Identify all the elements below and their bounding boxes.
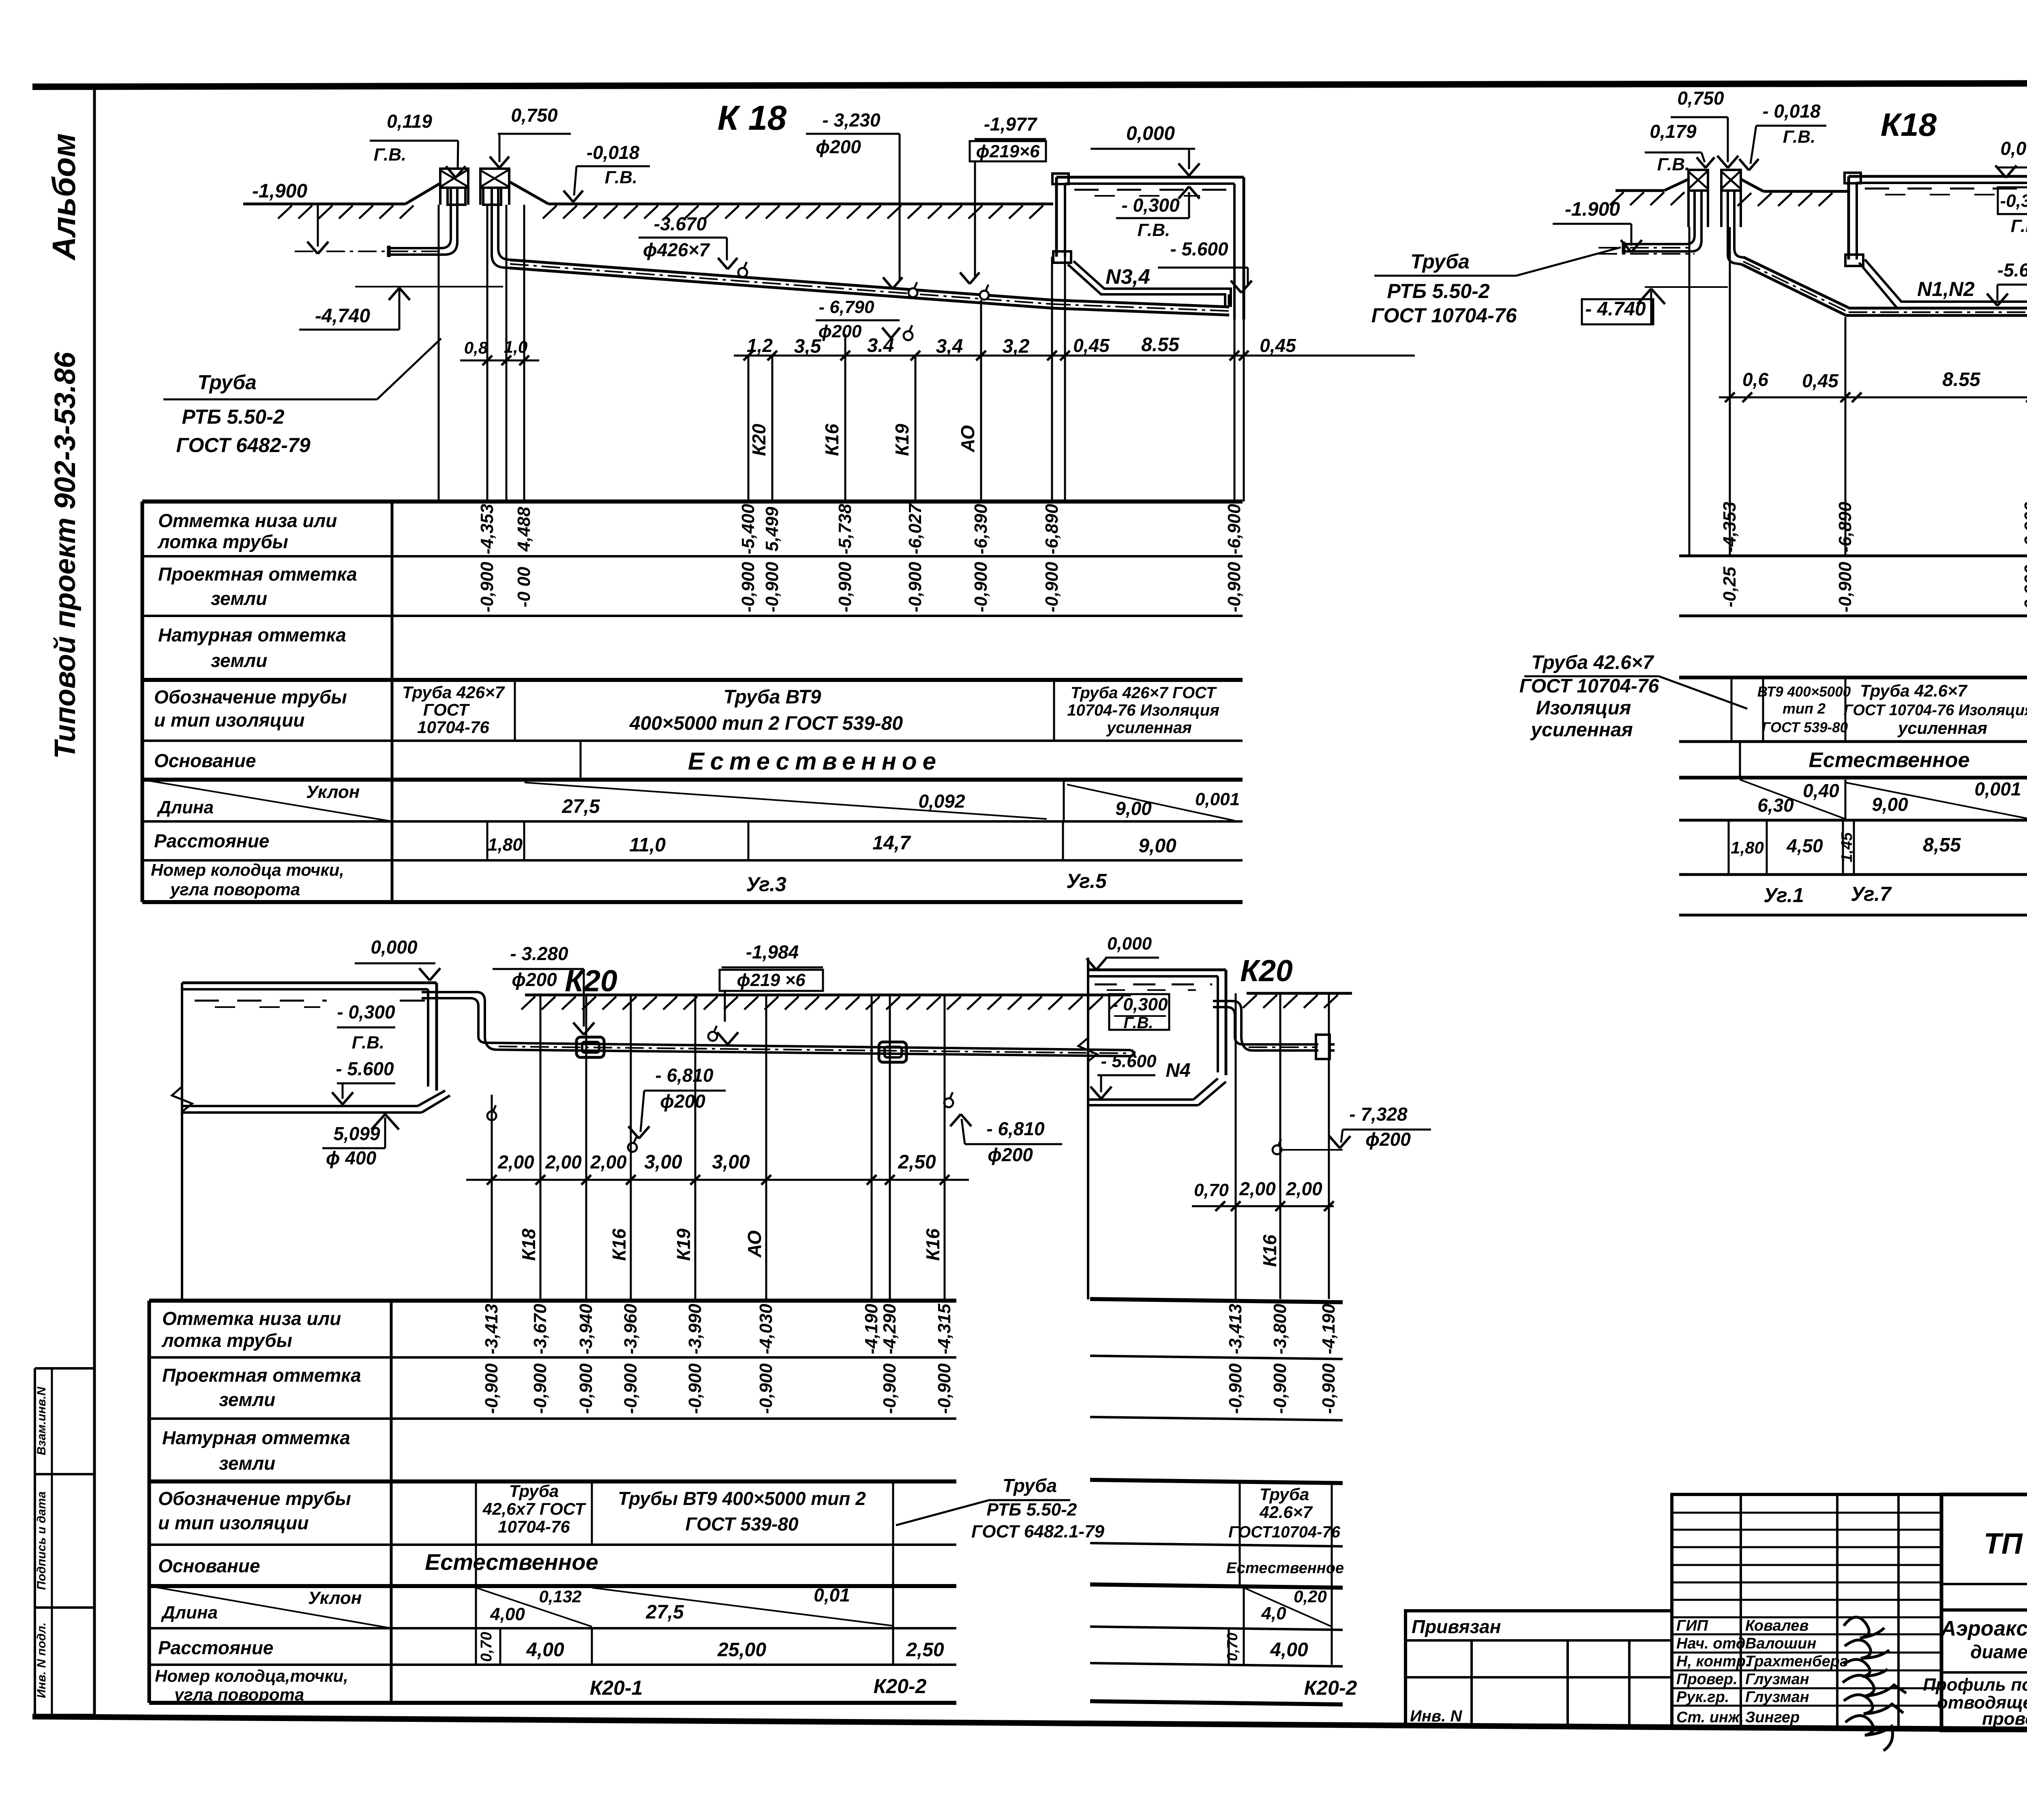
svg-text:диаметром 18 м: диаметром 18 м	[1970, 1641, 2027, 1662]
svg-text:4,00: 4,00	[1270, 1639, 1308, 1661]
svg-text:0,132: 0,132	[539, 1587, 581, 1606]
elevation label -4.740 boxed (profile 2)	[1582, 287, 1728, 324]
svg-text:0,20: 0,20	[1294, 1587, 1327, 1606]
aeroaccelerator tank walls (profile 1)	[1052, 174, 1244, 319]
svg-text:0,000: 0,000	[1107, 934, 1152, 954]
svg-text:Валошин: Валошин	[1745, 1635, 1816, 1652]
label N1,N2	[1917, 278, 1975, 300]
margin text Albom	[46, 133, 82, 261]
svg-text:усиленная: усиленная	[1897, 718, 1987, 737]
svg-text:усиленная: усиленная	[1106, 719, 1192, 737]
svg-text:0,119: 0,119	[387, 111, 432, 132]
svg-text:ГИП: ГИП	[1676, 1617, 1708, 1634]
svg-text:-4,353: -4,353	[1720, 502, 1740, 553]
svg-text:ГОСТ 6482-79: ГОСТ 6482-79	[176, 434, 310, 457]
riser pipe in shaft 2 with elbow to right	[492, 188, 510, 268]
svg-text:- 0,300: - 0,300	[1121, 195, 1180, 216]
svg-text:Основание: Основание	[158, 1555, 260, 1576]
table 1 well numbers row	[746, 870, 1107, 896]
svg-text:Проектная отметка: Проектная отметка	[158, 564, 357, 585]
svg-text:10704-76: 10704-76	[417, 718, 489, 737]
groundwater dash-dot level (profile 2)	[1598, 253, 1695, 255]
crossing label -6,810 phi200 mid (profile 3)	[628, 1065, 726, 1152]
svg-text:1,45: 1,45	[1838, 832, 1856, 862]
profile 1 title K 18	[718, 99, 787, 137]
table 3 well numbers K20-1 K20-2	[590, 1675, 927, 1699]
svg-text:-0,900: -0,900	[1319, 1363, 1339, 1414]
elevation label -0,300 G.V. boxed (profile 4)	[1109, 994, 1169, 1032]
svg-text:ВТ9 400×5000: ВТ9 400×5000	[1757, 684, 1851, 700]
svg-text:-5,738: -5,738	[835, 504, 855, 554]
table 4 elevation values row 2	[1226, 1363, 1339, 1414]
svg-text:Труба: Труба	[1260, 1485, 1309, 1504]
elevation label -1,900 (profile 1)	[252, 180, 328, 254]
svg-text:- 7,328: - 7,328	[1349, 1104, 1408, 1125]
table 2 slope diagonals	[1740, 778, 2027, 820]
svg-text:- 5.600: - 5.600	[336, 1058, 394, 1079]
svg-text:Основание: Основание	[154, 750, 256, 771]
elevation label 0,119 G.V. (profile 1)	[370, 111, 465, 178]
svg-text:- 5.600: - 5.600	[1170, 238, 1228, 259]
svg-text:10704-76: 10704-76	[498, 1517, 570, 1536]
section grid verticals (profile 2)	[1689, 227, 2027, 556]
table 2 grid rows	[1679, 556, 2027, 915]
svg-text:-0,900: -0,900	[971, 562, 991, 612]
svg-text:0,179: 0,179	[1650, 121, 1697, 142]
svg-text:ϕ426×7: ϕ426×7	[643, 239, 710, 260]
svg-text:-4,030: -4,030	[756, 1303, 776, 1354]
svg-text:-6,900: -6,900	[1224, 504, 1244, 554]
svg-text:Н, контр.: Н, контр.	[1676, 1653, 1750, 1670]
svg-text:Ковалев: Ковалев	[1745, 1617, 1808, 1634]
svg-text:К20-2: К20-2	[1304, 1676, 1357, 1699]
svg-text:0,8: 0,8	[464, 338, 488, 357]
table 2 foundation row	[1740, 742, 1970, 778]
elevation label 0,000 (profile 4)	[1086, 934, 1159, 970]
svg-text:Труба ВТ9: Труба ВТ9	[724, 686, 821, 708]
ground surface left of manholes (profile 1)	[243, 183, 440, 219]
pipe label Truba RTB 5.50-2 GOST 6482-79 (profile 1)	[163, 339, 441, 457]
ground surface left (profile 2)	[1610, 179, 1688, 205]
outlet pipe from tank (profile 4)	[1213, 1001, 1318, 1050]
svg-text:земли: земли	[211, 588, 267, 609]
svg-text:-0,300: -0,300	[2000, 191, 2027, 211]
title block main stamp	[1941, 1494, 2027, 1730]
svg-text:-4,353: -4,353	[477, 504, 497, 555]
ground surface right of manholes (profile 1)	[509, 182, 1053, 219]
svg-text:Труба: Труба	[197, 371, 257, 394]
stamp document number TP 902-3-53.86	[1984, 1528, 2027, 1560]
svg-text:-1,977: -1,977	[984, 114, 1038, 135]
svg-text:0,70: 0,70	[1224, 1633, 1241, 1661]
svg-text:Г.В.: Г.В.	[1138, 220, 1170, 240]
svg-text:Г.В.: Г.В.	[2011, 216, 2027, 236]
svg-text:ϕ200: ϕ200	[816, 136, 861, 157]
svg-text:ϕ200: ϕ200	[660, 1091, 705, 1112]
svg-text:400×5000 тип 2 ГОСТ 53: 400×5000 тип 2 ГОСТ 539-80	[629, 713, 903, 734]
svg-text:К18: К18	[518, 1228, 539, 1261]
table 3 grid	[149, 1301, 956, 1703]
water level dashes in tank (profile 1)	[1074, 190, 1228, 196]
svg-text:-0,018: -0,018	[587, 142, 640, 163]
svg-text:-0,900: -0,900	[880, 1363, 900, 1414]
tank walls (profile 3)	[172, 983, 437, 1301]
svg-text:усиленная: усиленная	[1530, 719, 1633, 741]
svg-text:Типовой проект 902-3-53.86: Типовой проект 902-3-53.86	[49, 352, 81, 759]
table 1 elevation values row 1 (pipe invert)	[477, 503, 1244, 554]
table 1 foundation row Estestvennoe	[581, 741, 942, 780]
table 4 foundation row	[1226, 1560, 1344, 1577]
svg-text:3,4: 3,4	[936, 336, 963, 357]
svg-text:- 3.280: - 3.280	[510, 943, 568, 964]
svg-text:2,00: 2,00	[1239, 1178, 1276, 1199]
svg-text:-0,900: -0,900	[685, 1363, 705, 1414]
svg-text:-3,670: -3,670	[530, 1303, 550, 1354]
svg-text:проводов: проводов	[1982, 1709, 2027, 1729]
svg-text:Трубы ВТ9 400×5000 тип 2: Трубы ВТ9 400×5000 тип 2	[618, 1488, 866, 1509]
svg-text:Профиль подающего и: Профиль подающего и	[1923, 1675, 2027, 1695]
svg-text:2,00: 2,00	[1286, 1178, 1322, 1199]
svg-text:4,0: 4,0	[1261, 1603, 1286, 1623]
svg-text:-5.600: -5.600	[1997, 259, 2027, 281]
table 3 elevation values row 2	[482, 1363, 954, 1414]
svg-text:Проектная отметка: Проектная отметка	[162, 1365, 361, 1386]
svg-text:-0,900: -0,900	[756, 1363, 776, 1414]
manhole shaft 2 (profile 2)	[1721, 170, 1741, 227]
svg-text:К16: К16	[821, 424, 842, 456]
svg-text:ГОСТ 539-80: ГОСТ 539-80	[1762, 720, 1848, 735]
section grid verticals (profile 4)	[1236, 993, 1329, 1299]
crossing label 5,099 phi400 (profile 3)	[322, 1105, 496, 1168]
svg-text:Г.В.: Г.В.	[1657, 154, 1690, 174]
table 2 elevation values row 1	[1720, 502, 2027, 552]
water level dashes in tank (profile 2)	[1865, 189, 2027, 195]
svg-text:3,00: 3,00	[644, 1151, 682, 1173]
svg-text:Изоляция: Изоляция	[1536, 697, 1631, 719]
svg-text:ГОСТ 539-80: ГОСТ 539-80	[686, 1513, 799, 1535]
svg-text:-3,800: -3,800	[1270, 1303, 1290, 1354]
svg-text:11,0: 11,0	[629, 834, 666, 856]
title block signature table	[1672, 1494, 1941, 1728]
svg-text:Натурная отметка: Натурная отметка	[158, 624, 346, 645]
water level dashes (profile 3 tank)	[195, 1001, 425, 1007]
table 4 grid rows	[1090, 1299, 1343, 1704]
svg-text:Отметка низа или: Отметка низа или	[158, 510, 337, 531]
svg-text:Уклон: Уклон	[306, 782, 360, 802]
svg-text:ϕ219×6: ϕ219×6	[976, 141, 1040, 161]
svg-text:Уклон: Уклон	[308, 1588, 362, 1608]
svg-text:Г.В.: Г.В.	[605, 167, 637, 187]
svg-text:- 4.740: - 4.740	[1585, 298, 1646, 320]
annotation Truba 426x7 GOST 10704-76 Izolyatsiya usilennaya with leader	[1519, 652, 1747, 741]
annotation Truba RTB 5.50-2 GOST 6482.1-79 with leader	[896, 1475, 1105, 1541]
side column box	[35, 1368, 94, 1715]
svg-text:-4,740: -4,740	[315, 305, 370, 327]
label N4	[1166, 1060, 1190, 1081]
svg-text:Труба 42.6×7: Труба 42.6×7	[1860, 681, 1967, 700]
svg-text:Рук.гр.: Рук.гр.	[1676, 1689, 1729, 1706]
manhole shaft 1 with cap (profile 1)	[440, 169, 468, 205]
svg-text:лотка трубы: лотка трубы	[161, 1330, 292, 1351]
svg-text:- 6,810: - 6,810	[655, 1065, 714, 1086]
svg-text:Взам.инв.N: Взам.инв.N	[35, 1386, 48, 1455]
svg-text:-3,990: -3,990	[685, 1303, 705, 1354]
svg-text:8.55: 8.55	[1141, 334, 1180, 356]
svg-text:К16: К16	[922, 1228, 943, 1261]
svg-text:РТБ 5.50-2: РТБ 5.50-2	[182, 405, 284, 428]
svg-text:К16: К16	[1259, 1235, 1280, 1267]
manhole shaft 2 with cap (profile 1)	[480, 169, 509, 205]
svg-text:и тип изоляции: и тип изоляции	[158, 1512, 309, 1533]
svg-text:Расстояние: Расстояние	[154, 830, 269, 851]
svg-text:Отметка низа или: Отметка низа или	[162, 1308, 341, 1329]
svg-text:5,499: 5,499	[762, 506, 782, 551]
svg-text:угла поворота: угла поворота	[169, 880, 300, 899]
svg-text:Естественное: Естественное	[1808, 748, 1969, 772]
svg-text:ϕ200: ϕ200	[819, 322, 862, 341]
svg-text:-0,900: -0,900	[738, 562, 758, 612]
svg-text:К19: К19	[673, 1228, 694, 1261]
svg-text:Обозначение трубы: Обозначение трубы	[158, 1488, 351, 1509]
pipe label Truba RTB 5.50-2 GOST 10704-76 (profile 2)	[1371, 247, 1621, 327]
svg-text:1,2: 1,2	[747, 335, 773, 356]
svg-text:1,80: 1,80	[1731, 838, 1764, 857]
svg-text:0,001: 0,001	[1974, 778, 2021, 800]
svg-text:лотка трубы: лотка трубы	[157, 531, 288, 552]
svg-text:- 0,300: - 0,300	[337, 1001, 395, 1023]
sheet frame left border	[93, 85, 96, 1717]
elevation label 0,179 G.V. (profile 2)	[1645, 121, 1714, 174]
table 3 row labels	[149, 1308, 391, 1704]
svg-text:Г.В.: Г.В.	[374, 145, 406, 165]
svg-text:Уг.5: Уг.5	[1066, 870, 1107, 892]
svg-text:Естественное: Естественное	[688, 748, 942, 775]
svg-text:3,00: 3,00	[712, 1151, 750, 1173]
svg-text:К20: К20	[748, 424, 769, 456]
elevation label -5.600 (profile 3)	[332, 1058, 395, 1104]
svg-text:Длина: Длина	[161, 1603, 218, 1623]
dimension row 0,8 1,0 (profile 1)	[460, 337, 539, 365]
crossing label -3,230 phi200 (profile 1)	[806, 109, 917, 297]
svg-text:-5,400: -5,400	[738, 504, 758, 554]
stamp sheet name Profil	[1923, 1675, 2027, 1729]
svg-text:Аэроакселатор: Аэроакселатор	[1940, 1617, 2027, 1640]
table 4 distance row	[1224, 1628, 1308, 1665]
svg-text:-0,900: -0,900	[530, 1363, 550, 1414]
svg-text:Труба 42.6×7: Труба 42.6×7	[1531, 652, 1654, 673]
crossing label -1,984 phi219x6 top (profile 3)	[708, 941, 823, 1044]
svg-text:0,000: 0,000	[2000, 138, 2027, 159]
svg-text:К18: К18	[1881, 107, 1937, 143]
svg-text:ТП 902-3-53.86: ТП 902-3-53.86	[1984, 1528, 2027, 1560]
svg-text:Г.В.: Г.В.	[1123, 1014, 1153, 1032]
svg-text:-0,900: -0,900	[621, 1363, 641, 1414]
svg-text:-0,900: -0,900	[1224, 562, 1244, 612]
svg-text:3,2: 3,2	[1003, 336, 1030, 357]
svg-text:8,55: 8,55	[1923, 834, 1961, 856]
svg-text:6,30: 6,30	[1757, 795, 1794, 816]
svg-text:9,00: 9,00	[1138, 835, 1176, 857]
tank floor with chute N4 (profile 4)	[1088, 1078, 1226, 1105]
crossing label -1,977 phi219x6 (profile 1)	[960, 114, 1046, 300]
sheet frame top border	[32, 83, 2027, 87]
svg-text:ϕ200: ϕ200	[988, 1144, 1033, 1165]
svg-text:-0,900: -0,900	[934, 1363, 954, 1414]
tank floor (profile 3)	[182, 1091, 450, 1113]
table 2 elevation values row 2	[1720, 559, 2027, 615]
svg-text:Труба: Труба	[509, 1481, 559, 1501]
svg-text:4,488: 4,488	[514, 506, 534, 552]
svg-text:земли: земли	[219, 1453, 275, 1474]
svg-text:Трахтенберг: Трахтенберг	[1745, 1653, 1848, 1670]
table 3 slope diagonals	[476, 1584, 893, 1627]
table 4 pipe designation cell	[1228, 1481, 1341, 1665]
svg-text:земли: земли	[211, 650, 267, 671]
table 2 distance row	[1729, 820, 1961, 875]
table 1 pipe designation cells	[402, 680, 1219, 741]
svg-text:Труба 426×7: Труба 426×7	[402, 683, 505, 702]
table 2 well numbers Ug.1 Ug.7	[1763, 883, 1892, 907]
elevation label 0,000 (profile 3)	[355, 937, 440, 980]
pipe coupling (profile 4)	[1316, 1035, 1335, 1059]
elevation label -0,018 G.V. (profile 1)	[564, 142, 650, 202]
svg-text:РТБ 5.50-2: РТБ 5.50-2	[1387, 280, 1489, 302]
svg-text:-6,900: -6,900	[2021, 502, 2027, 552]
svg-text:4,00: 4,00	[526, 1639, 564, 1661]
svg-text:Длина: Длина	[156, 797, 214, 817]
svg-text:-6,890: -6,890	[1835, 502, 1855, 552]
crossing label -3.280 phi200 top (profile 3)	[493, 943, 594, 1035]
dimension row 0,70 2,00 2,00 (profile 4)	[1192, 1178, 1334, 1211]
tank floor chute N1,N2 (profile 2)	[1859, 259, 2027, 307]
svg-text:0,70: 0,70	[478, 1632, 495, 1662]
table 4 elevation values row 1	[1226, 1303, 1339, 1354]
elevation label -0,300 G.V. (profile 3)	[337, 1001, 395, 1053]
svg-text:Провер.: Провер.	[1676, 1671, 1738, 1688]
svg-text:-3,413: -3,413	[1226, 1304, 1245, 1355]
svg-text:-0,900: -0,900	[482, 1363, 501, 1414]
svg-text:ГОСТ 10704-76: ГОСТ 10704-76	[1519, 675, 1659, 697]
svg-text:-0,900: -0,900	[1042, 562, 1062, 612]
svg-text:Труба: Труба	[1003, 1475, 1057, 1496]
stamp object name Aeroakselator	[1940, 1617, 2027, 1662]
elevation label -0,300 G.V. (profile 1 tank)	[1116, 187, 1200, 240]
svg-text:Инв. N: Инв. N	[1410, 1707, 1462, 1725]
elevation label -4,740 (profile 1)	[299, 287, 503, 330]
svg-text:0,40: 0,40	[1803, 780, 1839, 801]
well labels K20 K16 K19 AO (profile 1)	[748, 424, 978, 456]
profile 2 title K18	[1881, 107, 1937, 143]
table 3 elevation values row 1	[482, 1303, 954, 1354]
svg-text:0,000: 0,000	[371, 937, 418, 958]
svg-text:2,00: 2,00	[497, 1151, 534, 1173]
svg-text:4,00: 4,00	[490, 1604, 525, 1624]
table 1 distance row values	[487, 821, 1176, 860]
tank walls (profile 4)	[1078, 958, 1226, 1299]
svg-text:- 6,790: - 6,790	[819, 297, 875, 317]
svg-text:8.55: 8.55	[1942, 369, 1981, 390]
svg-text:ГОСТ 10704-76: ГОСТ 10704-76	[1371, 304, 1517, 327]
elevation label -5.600 (profile 1 tank)	[1158, 238, 1252, 293]
svg-text:Ст. инж.: Ст. инж.	[1676, 1709, 1744, 1726]
margin text Tipovoy proekt 902-3-53.86	[49, 352, 81, 759]
side column label Vzam inv N	[35, 1386, 48, 1455]
label N3,4	[1106, 265, 1150, 289]
svg-text:0,750: 0,750	[511, 105, 558, 126]
svg-text:ГОСТ: ГОСТ	[423, 700, 470, 719]
svg-text:2,00: 2,00	[545, 1151, 582, 1173]
side column label Podpis i data	[35, 1491, 48, 1590]
svg-text:4,50: 4,50	[1786, 835, 1823, 856]
table 1 slope/length diagonals	[525, 780, 1240, 821]
svg-text:-0,900-: -0,900-	[2021, 559, 2027, 615]
table 4 slope diagonal	[1244, 1586, 1332, 1628]
table 1 grid	[142, 502, 1243, 902]
svg-text:Естественное: Естественное	[425, 1549, 598, 1575]
svg-text:1,80: 1,80	[488, 835, 523, 855]
svg-text:-4,315: -4,315	[934, 1303, 954, 1354]
profile 4 title K20	[1240, 954, 1293, 988]
side column label Inv N podl	[35, 1623, 48, 1698]
svg-text:К19: К19	[891, 424, 913, 456]
svg-text:0,000: 0,000	[1126, 123, 1175, 144]
svg-text:и тип изоляции: и тип изоляции	[154, 710, 304, 731]
ground surface (profile 3)	[521, 995, 1131, 1010]
table 4 well number K20-2	[1304, 1676, 1357, 1699]
svg-text:Натурная отметка: Натурная отметка	[162, 1427, 350, 1448]
svg-text:-4,190: -4,190	[861, 1303, 881, 1354]
svg-text:N3,4: N3,4	[1106, 265, 1150, 289]
dimension row 0,6 0,45 8.55 0,45 (profile 2)	[1719, 369, 2027, 402]
svg-text:РТБ 5.50-2: РТБ 5.50-2	[987, 1500, 1077, 1520]
svg-text:0,001: 0,001	[1195, 789, 1240, 809]
svg-text:2,50: 2,50	[906, 1639, 944, 1661]
svg-text:-0,900: -0,900	[905, 562, 925, 612]
svg-text:К 18: К 18	[718, 99, 787, 137]
elevation label -1,900 (profile 2)	[1553, 199, 1642, 252]
svg-text:2,00: 2,00	[590, 1151, 627, 1173]
svg-text:27,5: 27,5	[645, 1601, 684, 1623]
svg-text:Нач. отд: Нач. отд	[1676, 1635, 1745, 1652]
elevation label -5.600 (profile 2 tank)	[1987, 259, 2027, 306]
svg-text:ϕ200: ϕ200	[1365, 1129, 1411, 1150]
svg-text:К16: К16	[609, 1228, 630, 1261]
svg-text:Номер колодца,точки,: Номер колодца,точки,	[155, 1666, 348, 1685]
section grid verticals (profile 3)	[492, 995, 945, 1301]
svg-text:Альбом: Альбом	[46, 133, 82, 261]
svg-text:Труба 426×7 ГОСТ: Труба 426×7 ГОСТ	[1071, 684, 1217, 702]
svg-text:- 6,810: - 6,810	[986, 1118, 1045, 1139]
svg-text:Г.В.: Г.В.	[352, 1033, 384, 1053]
table 2 pipe designation cells	[1731, 677, 2027, 742]
dimension row 2,00 2,00 2,00 3,00 3,00 2,50 (profile 3)	[466, 1151, 969, 1185]
elevation label -0,300 G.V. boxed (profile 2 tank)	[1998, 187, 2027, 236]
elevation label 0,000 (profile 2 tank)	[1995, 138, 2027, 178]
svg-text:Привязан: Привязан	[1412, 1616, 1501, 1637]
elevation label -5.600 (profile 4)	[1091, 1051, 1157, 1099]
elevation label 0,000 (profile 1 tank)	[1091, 123, 1200, 176]
aeroaccelerator tank walls (profile 2)	[1845, 173, 2027, 313]
main sloping pipe 426x7 (profile 1)	[510, 260, 1229, 315]
outlet pipe from tank with elbows (profile 3)	[422, 992, 1135, 1056]
svg-text:ϕ219 ×6: ϕ219 ×6	[737, 970, 806, 990]
riser pipe in shaft 1 with elbow to left	[389, 188, 457, 257]
ground surface (profile 4)	[1243, 993, 1352, 1008]
svg-text:-0,900: -0,900	[1270, 1363, 1290, 1414]
signature squiggles	[1843, 1617, 1906, 1751]
svg-text:Номер колодца точки,: Номер колодца точки,	[151, 860, 344, 879]
table 3 pipe designation cells	[476, 1481, 893, 1665]
